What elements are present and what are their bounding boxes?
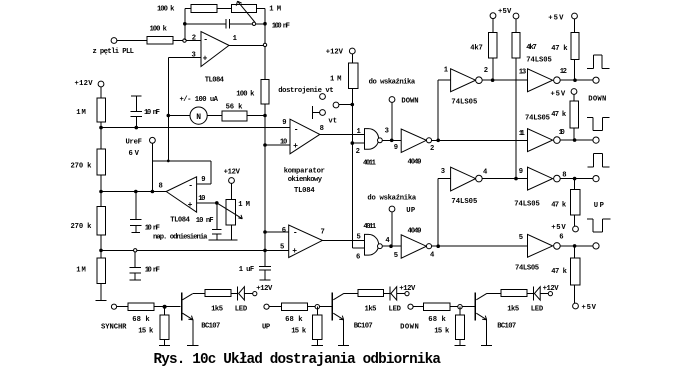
node [151,190,155,194]
wire [207,115,222,117]
node [263,230,267,234]
node [99,126,103,130]
svg-text:4k7: 4k7 [526,44,537,52]
resistor 1M [348,63,358,89]
capacitor 10nF C [134,252,136,267]
svg-text:+5V: +5V [551,90,566,98]
wire [185,8,191,10]
wire A2 in [438,178,450,180]
wire collector [344,293,358,295]
node [134,249,137,252]
terminal vt3 [320,110,326,116]
wire [217,8,231,10]
svg-text:2: 2 [484,67,488,75]
svg-text:1 uF: 1 uF [239,266,254,274]
svg-text:15 k: 15 k [434,327,450,335]
terminal vt2 [333,102,339,108]
resistor 1k5 [501,290,527,297]
svg-text:56 k: 56 k [226,104,244,112]
svg-text:BC107: BC107 [201,323,220,331]
svg-text:UP: UP [262,324,271,332]
wire [264,9,266,24]
svg-text:-: - [293,228,298,237]
node [458,305,462,309]
wire [308,306,332,308]
node [263,43,266,46]
svg-text:47 k: 47 k [551,268,567,276]
node [99,249,103,253]
svg-text:4049: 4049 [408,158,422,166]
svg-text:6: 6 [356,254,360,262]
svg-text:10 nF: 10 nF [196,217,214,225]
wire [492,58,494,80]
node [252,22,255,25]
inverter B2 74LS05 [528,129,553,152]
svg-text:15 k: 15 k [291,327,307,335]
wire pin2 [352,142,364,144]
terminal +12V [229,178,235,184]
inverter U3A 4049 [401,129,426,152]
capacitor 100nF [225,19,227,29]
svg-text:68 k: 68 k [132,316,150,324]
wire [459,307,461,315]
svg-text:270 k: 270 k [71,162,93,170]
wire [168,115,190,117]
wire [117,306,128,308]
svg-text:+12V: +12V [75,80,94,88]
wire [459,340,461,346]
wire emitter [486,320,488,346]
node [183,39,186,42]
emitter [183,313,193,320]
wire up to A2 [437,179,439,247]
wire B1 out [560,79,593,81]
svg-text:+5V: +5V [498,8,512,16]
wire vt2 [339,104,352,106]
inverter A2 74LS05 [451,167,476,191]
svg-text:BC107: BC107 [354,323,373,331]
inverter B4 74LS05 [528,234,553,257]
wire [351,54,353,63]
pulse up1 [587,68,593,70]
svg-text:100 nF: 100 nF [272,23,290,31]
svg-text:1: 1 [444,67,449,75]
svg-text:DOWN: DOWN [401,97,418,105]
op-amp U1C TL084 follower [166,177,196,212]
terminal vt1 [320,94,326,100]
wire [167,58,169,161]
wire [264,104,266,266]
resistor 47k [570,101,579,128]
wire [413,306,424,308]
wire [100,284,102,301]
wire [391,212,393,246]
wire [100,87,102,98]
node [263,22,267,26]
terminal +12V [548,292,552,296]
node [167,114,171,118]
pot wiper [217,203,243,219]
gnd [130,279,141,281]
svg-text:TL084: TL084 [170,217,190,225]
svg-text:7: 7 [321,229,325,237]
resistor 4k7 [512,33,520,59]
resistor 100k vertical [261,79,269,104]
svg-text:z pętli PLL: z pętli PLL [93,48,135,56]
node [491,78,495,82]
node [163,305,167,309]
wire [231,183,233,199]
svg-text:6: 6 [282,227,286,235]
svg-text:100 k: 100 k [150,26,168,34]
wire [230,23,253,25]
svg-text:+5V: +5V [582,304,597,312]
svg-text:nap. odniesienia: nap. odniesienia [153,233,208,241]
node [514,177,518,181]
wire [231,293,238,295]
svg-text:-: - [294,125,299,134]
svg-text:LED: LED [235,305,248,313]
wire [574,285,576,303]
wire [574,19,576,33]
wire [100,122,102,149]
wire [515,19,517,33]
resistor 15k [313,315,322,340]
wire pin9 stub [197,183,211,185]
svg-text:9: 9 [394,144,398,152]
inverter A1 74LS05 [451,69,476,92]
svg-text:3: 3 [192,52,196,60]
wire out U1D [322,239,364,241]
LED cathode bar [389,286,391,300]
op-amp U1A TL084 [201,32,229,67]
svg-text:47 k: 47 k [551,111,567,119]
svg-text:4: 4 [430,252,435,260]
svg-text:6: 6 [559,233,563,241]
nand U2B 4011 [365,234,379,255]
svg-text:komparator: komparator [284,167,325,175]
wire [173,40,201,42]
svg-text:4011: 4011 [363,223,376,231]
svg-text:TL084: TL084 [294,187,315,195]
wire [450,306,474,308]
svg-text:4049: 4049 [408,227,422,235]
svg-text:DOWN: DOWN [588,96,606,104]
svg-text:1: 1 [233,35,238,43]
LED cathode bar [532,286,534,300]
wire out [382,245,401,247]
svg-text:okienkowy: okienkowy [288,176,323,184]
wire emitter [192,320,194,346]
ground [226,239,238,241]
wire [151,143,153,191]
pulse down1 [587,117,593,119]
wire [574,60,576,81]
wire feedback right [210,161,212,184]
wire [100,175,102,207]
svg-text:UP: UP [594,202,605,210]
wire [154,306,180,308]
svg-text:+12V: +12V [256,285,273,293]
svg-text:47 k: 47 k [551,45,568,53]
svg-text:10: 10 [198,195,205,203]
terminal DOWN [408,304,413,309]
capacitor 10nF top [135,96,137,111]
svg-text:10 nF: 10 nF [145,225,160,233]
svg-text:1k5: 1k5 [365,305,377,313]
node [573,78,577,82]
terminal +12V [349,48,355,54]
pulse down2 [587,218,593,220]
wire [117,40,147,42]
terminal +12V [253,292,257,296]
capacitor 10nF [216,203,218,229]
svg-text:74LS05: 74LS05 [451,198,477,206]
resistor 47k [571,190,581,216]
wire [574,215,576,226]
wire pin6 [352,247,364,249]
svg-text:LED: LED [531,305,544,313]
wire out row4 [432,245,527,247]
svg-text:TL084: TL084 [205,76,225,84]
svg-text:5: 5 [519,234,523,242]
resistor 270k [97,207,105,236]
resistor 15k [160,315,169,340]
terminal UP [264,304,269,309]
terminal out3 [593,176,599,182]
svg-text:+12V: +12V [326,49,344,57]
meter N [190,107,207,124]
svg-text:DOWN: DOWN [400,324,419,332]
svg-text:+5V: +5V [551,224,566,232]
terminal UreF [150,137,156,143]
wire [269,306,281,308]
svg-text:do wskaźnika: do wskaźnika [367,195,416,203]
wire [244,293,252,295]
LED triangle [239,287,245,300]
potentiometer 1M [231,5,256,13]
terminal +5V [573,226,579,232]
emitter [333,313,343,320]
wire pin6 [265,231,289,233]
terminal +5V [571,89,577,95]
svg-text:+: + [293,142,298,151]
node [135,126,139,130]
wire [257,8,266,10]
svg-text:2: 2 [192,35,196,43]
svg-text:+/- 100 uA: +/- 100 uA [180,96,219,104]
wire [391,102,393,140]
terminal z petli PLL [111,38,117,44]
capacitor 10nF B [135,193,137,219]
svg-text:9: 9 [282,119,286,127]
LED cathode bar [237,286,239,300]
wire [231,225,233,240]
ground [208,239,225,241]
op-amp U1D comparator bottom [289,225,323,258]
wire collector [487,293,501,295]
node [351,141,355,145]
wire A1 in [438,79,450,81]
svg-text:4: 4 [483,169,488,177]
ground [454,344,465,346]
resistor 1M [97,258,105,284]
svg-text:5: 5 [394,252,398,260]
terminal out1 [593,77,599,83]
svg-text:100 k: 100 k [236,90,255,98]
transistor BC107 base bar [474,292,476,320]
node [263,114,267,118]
svg-text:5: 5 [357,234,361,242]
resistor 47k [571,33,579,60]
svg-text:-: - [188,181,193,190]
wire 4k7 column [515,58,517,179]
emitter [476,313,486,320]
ground [187,344,198,346]
svg-text:+12V: +12V [224,169,241,177]
collector [333,294,343,300]
node [167,160,170,163]
resistor 68k [424,303,450,311]
nand U2A 4011 [365,129,379,150]
svg-text:LED: LED [389,305,402,313]
wire pin10 [265,144,290,146]
svg-text:+12V: +12V [543,285,560,293]
svg-text:11: 11 [519,130,526,138]
resistor R-in 100k [147,37,173,44]
svg-text:BC107: BC107 [497,323,516,331]
pulse up2 [587,166,593,168]
potentiometer 1M vertical [226,200,235,226]
svg-text:10: 10 [559,129,565,137]
gnd bar [131,95,142,97]
node [263,249,267,253]
node [573,177,577,181]
resistor 15k [455,315,464,340]
LED triangle [391,287,397,300]
svg-text:12: 12 [560,68,567,76]
wire out U1B [320,133,365,135]
wire pin3 [168,57,201,59]
svg-text:10 nF: 10 nF [144,109,160,117]
terminal +5V [572,13,578,19]
terminal SYNCHR [111,304,116,309]
terminal +12V [405,292,409,296]
svg-text:UP: UP [406,207,416,215]
svg-text:+: + [203,55,208,64]
terminal DOWN [389,97,395,103]
wire node A to comparator pin9 [101,127,290,129]
resistor 68k [282,303,308,311]
wire [316,307,318,315]
resistor 4k7 [489,33,497,59]
wire collector [193,293,205,295]
terminal +5V [490,13,496,19]
svg-text:1 M: 1 M [238,201,250,209]
wire up to A1 [437,80,439,140]
node [573,244,577,248]
svg-text:SYNCHR: SYNCHR [101,324,127,332]
resistor 56k [222,111,247,121]
svg-text:+: + [188,201,193,210]
LED triangle [534,287,540,300]
svg-text:74LS05: 74LS05 [525,115,550,123]
svg-text:1: 1 [357,128,362,136]
svg-text:UreF: UreF [126,139,143,147]
svg-text:do wskaźnika: do wskaźnika [369,78,416,86]
wire [384,293,390,295]
svg-text:4k7: 4k7 [470,45,483,53]
terminal +5V [513,13,519,19]
node [436,139,440,143]
svg-text:74LS05: 74LS05 [515,265,539,273]
svg-text:74LS05: 74LS05 [526,56,552,64]
wire [247,115,265,117]
svg-text:9: 9 [519,168,523,176]
svg-text:13: 13 [519,69,526,77]
svg-text:68 k: 68 k [285,316,303,324]
node [390,139,394,143]
node [183,22,187,26]
wire [574,179,576,190]
wire [540,293,548,295]
capacitor 1uF [259,266,271,268]
transistor BC107 base bar [181,292,183,320]
ground [312,344,323,346]
inverter U3B 4049 [401,235,426,258]
wire pin10 [197,202,217,204]
svg-text:68 k: 68 k [428,316,446,324]
node [99,190,103,194]
wire [492,19,494,33]
wire [573,128,575,140]
terminal +12V [98,81,104,87]
node [389,244,393,248]
svg-text:9: 9 [201,176,205,184]
gnd [260,279,271,281]
wire [316,340,318,346]
svg-text:4: 4 [385,237,390,245]
terminal out2 [593,137,599,143]
svg-text:Rys. 10c Układ dostrajania odb: Rys. 10c Układ dostrajania odbiornika [154,352,442,367]
svg-text:dostrojenie vt: dostrojenie vt [278,87,334,95]
node [134,190,138,194]
svg-text:+: + [292,247,297,256]
wire [256,23,265,25]
inverter B3 74LS05 [528,167,553,190]
resistor 1M [97,98,105,122]
pot wiper arrow [238,1,255,22]
svg-text:8: 8 [320,125,324,133]
svg-text:1 M: 1 M [330,76,342,84]
wire pin5 long [101,249,289,251]
svg-text:+12V: +12V [399,285,416,293]
node [315,305,319,309]
svg-text:2: 2 [356,148,360,156]
wire B4 out [560,245,592,247]
wire [574,246,576,258]
wire A1 out [482,79,527,81]
ground [338,344,349,346]
wire feedback top [152,160,210,162]
node [436,244,440,248]
svg-text:3: 3 [385,128,389,136]
wire B2 out [560,139,593,141]
ground [95,300,106,302]
node [263,143,267,147]
terminal +5V [573,303,579,309]
svg-text:270 k: 270 k [71,223,93,231]
